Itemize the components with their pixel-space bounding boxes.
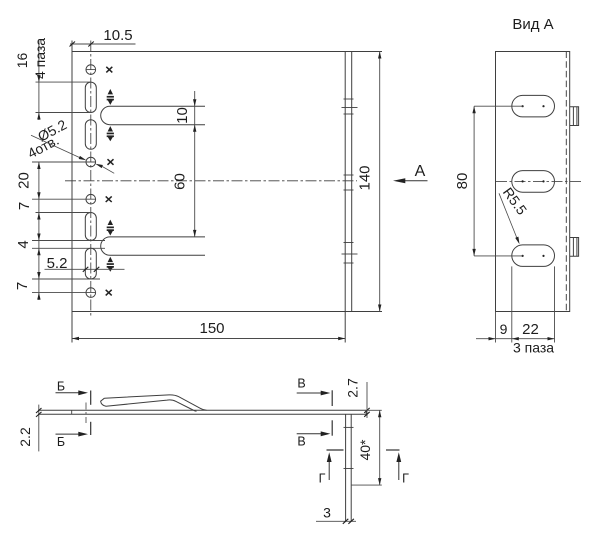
hole 4 (bottom, Ø5.2) [86, 288, 96, 298]
flange slot A3 [512, 245, 555, 267]
slot A2 center dots [522, 180, 524, 182]
svg-text:20: 20 [16, 172, 33, 189]
tab 1 on right edge [570, 107, 579, 126]
view A hidden fold line (dashed) [565, 52, 567, 312]
extension line slot S1 bottom [36, 112, 92, 114]
lanced spring tab (side view) [101, 395, 207, 411]
leg slot tick 1 [344, 426, 354, 428]
leg slot tick 2 [344, 468, 354, 470]
svg-text:В: В [297, 435, 305, 449]
profile leg inner line [350, 414, 352, 521]
dimension 150 (bottom) [72, 338, 345, 340]
svg-text:80: 80 [454, 173, 471, 190]
dimension 9 and 22 (view A bottom) [476, 266, 555, 342]
dimension 10 / 60 vertical line [194, 91, 196, 237]
x mark at hole 1 [106, 67, 112, 73]
svg-text:40*: 40* [357, 439, 373, 461]
column axis mark on bar [85, 403, 87, 424]
tab 2 on right edge [570, 238, 579, 257]
x mark at hole 3 [106, 196, 112, 202]
flange slot A1 [512, 95, 555, 117]
plate outline top edge (with extension to 140-dim) [72, 51, 382, 53]
svg-text:3 паза: 3 паза [513, 340, 554, 356]
svg-text:140: 140 [357, 165, 374, 190]
bar right end cap [365, 410, 367, 414]
chain arrowheads [37, 75, 40, 300]
slot A3 center dots [522, 255, 524, 257]
vertical centerline of hole column [90, 41, 92, 318]
plate right flange edge line [351, 52, 353, 312]
svg-text:В: В [297, 377, 305, 391]
plate outline bottom edge (with extension to 140-dim) [72, 311, 382, 313]
slot A1 center dots [522, 105, 545, 257]
extension line hole 4 [32, 292, 96, 294]
plate right edge fold line [344, 52, 346, 312]
horizontal slot H2 (round left end) [101, 237, 205, 255]
hole 2 (Ø5.2) [86, 157, 96, 167]
bar left step tick [71, 410, 73, 414]
horizontal centerline of plate [65, 180, 357, 182]
dimension 2.7 (right end thickness) [364, 382, 370, 418]
svg-text:150: 150 [199, 320, 224, 337]
right edge slot tick group 2 [344, 175, 354, 190]
svg-text:16: 16 [14, 53, 30, 69]
svg-text:10: 10 [174, 107, 191, 124]
profile bar bottom line [38, 413, 366, 415]
extension line hole 2 [32, 161, 96, 163]
svg-text:Б: Б [57, 435, 65, 449]
right edge slot tick group 3 [342, 243, 358, 264]
dimension 5.2 (slot width) [45, 267, 125, 272]
left dimension chain line (upper part) [32, 41, 105, 300]
dimension 10.5 (top) [70, 42, 136, 47]
x mark at hole 4 [106, 290, 112, 296]
extension line slot S3 bottom [32, 240, 105, 242]
profile leg outer line [345, 414, 347, 521]
dimension 3 (leg thickness) [316, 519, 356, 524]
vertical slot S3 [85, 213, 96, 241]
svg-text:22: 22 [522, 321, 539, 338]
svg-text:7: 7 [14, 282, 31, 290]
svg-text:7: 7 [16, 202, 33, 210]
horizontal slot H1 (10 wide, round left end) [101, 106, 205, 124]
svg-text:R5.5: R5.5 [500, 184, 530, 218]
svg-text:9: 9 [500, 321, 508, 337]
dimension 2.2 (left end thickness) [36, 405, 42, 452]
dimension 40* (leg length) [351, 410, 382, 485]
svg-text:4: 4 [15, 240, 32, 248]
extension line slot S1 top [36, 81, 92, 83]
svg-text:2.2: 2.2 [17, 427, 33, 447]
view A outline [496, 52, 570, 312]
right extension line for 150 dim [344, 312, 346, 343]
hole 3 (Ø5.2) [86, 194, 96, 204]
extension line hole 3 [32, 198, 96, 200]
svg-text:Вид А: Вид А [512, 16, 553, 33]
dimension 140 (right) [379, 52, 381, 312]
burr-direction symbol above slot H2 [107, 220, 114, 236]
burr-direction symbol below slot H1 [107, 126, 114, 141]
right edge slot tick group 1 [342, 99, 358, 114]
burr-direction symbol above slot H1 [107, 89, 114, 105]
svg-text:10.5: 10.5 [103, 27, 132, 44]
profile bar top line [38, 409, 366, 411]
svg-text:Б: Б [57, 380, 65, 394]
svg-text:Г: Г [402, 472, 409, 486]
svg-text:2.7: 2.7 [345, 378, 361, 398]
vertical slot S1 (16 long) [85, 82, 96, 112]
hole 1 (top, Ø5.2) [86, 65, 96, 75]
svg-text:60: 60 [172, 173, 189, 190]
left dimension chain line (lower part) [38, 162, 40, 300]
svg-text:3: 3 [323, 505, 331, 521]
dimension 80 (view A) [474, 106, 522, 256]
burr-direction symbol below slot H2 [107, 257, 114, 272]
svg-text:5.2: 5.2 [47, 255, 68, 272]
extension line slot S3 top [36, 212, 92, 214]
plate outline left edge (with extensions for 10.5 and 150 dims) [71, 41, 73, 343]
view A horizontal centerline [496, 180, 581, 182]
svg-text:4 паза: 4 паза [32, 38, 48, 79]
vertical slot S4 [85, 248, 96, 279]
flange slot A2 (middle) [512, 171, 555, 193]
extension line slot S4 top [32, 247, 105, 249]
svg-text:Г: Г [319, 472, 326, 486]
view arrow A [403, 180, 428, 182]
vertical slot S2 [85, 120, 96, 150]
extension line slot S4 bottom [32, 278, 100, 280]
x mark at hole 2 [108, 159, 114, 165]
svg-text:А: А [415, 163, 426, 180]
